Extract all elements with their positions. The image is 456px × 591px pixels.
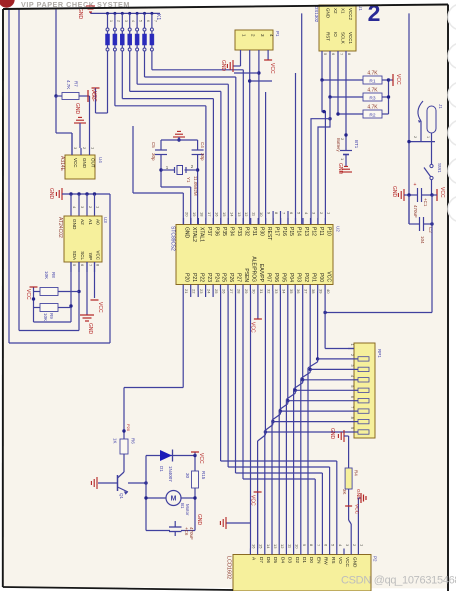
svg-text:X2: X2 [333, 8, 338, 14]
svg-text:+C1: +C1 [423, 198, 428, 207]
svg-text:GND: GND [184, 227, 190, 239]
svg-text:D1: D1 [302, 557, 307, 563]
svg-text:B1: B1 [180, 503, 185, 509]
svg-text:P07: P07 [266, 273, 272, 282]
svg-text:R9: R9 [49, 313, 54, 319]
svg-text:1: 1 [426, 136, 430, 138]
svg-text:D0: D0 [309, 557, 314, 563]
svg-text:30: 30 [185, 473, 190, 479]
svg-text:D5: D5 [273, 557, 278, 563]
svg-text:P2: P2 [373, 556, 378, 562]
svg-text:23: 23 [199, 289, 204, 294]
svg-text:GND: GND [74, 103, 80, 115]
svg-text:11.0592M: 11.0592M [193, 176, 198, 196]
svg-text:1K: 1K [113, 438, 118, 444]
svg-text:40: 40 [326, 289, 331, 294]
svg-text:3: 3 [124, 20, 128, 22]
svg-text:P26: P26 [228, 273, 234, 282]
svg-text:7: 7 [153, 20, 157, 22]
svg-text:13: 13 [237, 212, 242, 217]
svg-text:Y1: Y1 [186, 177, 191, 183]
svg-text:21: 21 [184, 289, 189, 294]
svg-text:R1: R1 [369, 79, 375, 85]
svg-text:U2: U2 [336, 226, 341, 232]
svg-text:16: 16 [214, 212, 219, 217]
svg-text:REST: REST [266, 227, 272, 240]
svg-text:27: 27 [229, 289, 234, 294]
svg-text:12: 12 [244, 212, 249, 217]
svg-text:31: 31 [259, 289, 264, 294]
svg-text:C5: C5 [151, 142, 156, 148]
svg-text:U3: U3 [103, 217, 108, 223]
svg-text:GND: GND [391, 186, 397, 198]
svg-text:P36: P36 [214, 227, 220, 236]
svg-text:3K: 3K [342, 489, 347, 495]
svg-text:R4: R4 [354, 470, 359, 476]
svg-text:Battery: Battery [336, 138, 341, 152]
svg-text:GND: GND [352, 557, 357, 568]
svg-text:C4: C4 [200, 142, 205, 148]
svg-text:X1: X1 [341, 8, 346, 14]
svg-text:SCLK: SCLK [341, 32, 346, 44]
svg-text:PSEN: PSEN [243, 268, 249, 282]
svg-text:12: 12 [280, 544, 285, 549]
svg-text:4.7K: 4.7K [367, 71, 378, 77]
svg-text:104: 104 [420, 236, 425, 244]
svg-text:10: 10 [295, 544, 300, 549]
svg-text:19: 19 [192, 212, 197, 217]
svg-text:P20: P20 [126, 424, 131, 432]
svg-text:BT1: BT1 [354, 140, 359, 149]
svg-text:SDA: SDA [72, 251, 77, 260]
svg-text:15: 15 [222, 212, 227, 217]
svg-text:VCC: VCC [354, 504, 360, 515]
svg-text:24: 24 [207, 289, 212, 294]
svg-text:R3: R3 [369, 96, 375, 102]
svg-text:EN: EN [316, 557, 321, 564]
svg-text:P32: P32 [243, 227, 249, 236]
svg-text:10K: 10K [43, 313, 48, 321]
svg-text:10: 10 [259, 212, 264, 217]
svg-text:M: M [171, 496, 177, 503]
svg-text:P16: P16 [281, 227, 287, 236]
svg-text:R15: R15 [201, 471, 206, 480]
svg-text:18: 18 [199, 212, 204, 217]
svg-text:XTAL1: XTAL1 [199, 227, 205, 242]
svg-text:VCC: VCC [395, 74, 401, 85]
svg-text:14: 14 [266, 544, 271, 549]
svg-text:EA/VPP: EA/VPP [258, 264, 264, 283]
svg-text:VCC: VCC [73, 158, 78, 168]
svg-text:2: 2 [413, 136, 417, 138]
svg-text:R2: R2 [369, 113, 375, 119]
svg-text:30: 30 [251, 289, 256, 294]
svg-text:AT24C02: AT24C02 [57, 217, 63, 238]
svg-text:4.7K: 4.7K [367, 88, 378, 94]
svg-text:P24: P24 [213, 273, 219, 282]
svg-text:20: 20 [185, 212, 190, 217]
svg-text:P02: P02 [303, 273, 309, 282]
svg-text:P14: P14 [296, 227, 302, 236]
svg-text:A1: A1 [88, 219, 93, 225]
svg-text:1: 1 [109, 20, 113, 22]
svg-text:28: 28 [237, 289, 242, 294]
svg-text:VCC: VCC [198, 453, 204, 464]
svg-text:GND: GND [326, 8, 331, 19]
svg-text:GND: GND [196, 514, 202, 526]
svg-text:VCC: VCC [325, 271, 331, 282]
svg-text:GND: GND [77, 8, 83, 20]
svg-text:D4: D4 [280, 557, 285, 563]
svg-text:P13: P13 [303, 227, 309, 236]
svg-text:RST: RST [326, 32, 331, 41]
svg-text:25: 25 [214, 289, 219, 294]
svg-text:RS: RS [331, 557, 336, 564]
svg-text:J1: J1 [438, 104, 443, 109]
svg-text:P04: P04 [288, 273, 294, 282]
svg-text:P34: P34 [229, 227, 235, 236]
svg-text:4: 4 [131, 20, 135, 22]
svg-text:P35: P35 [221, 227, 227, 236]
svg-text:16: 16 [251, 544, 256, 549]
svg-text:+C6: +C6 [184, 527, 189, 536]
svg-text:VCC2: VCC2 [348, 8, 353, 21]
svg-text:P21: P21 [191, 273, 197, 282]
svg-text:30p: 30p [151, 153, 156, 161]
svg-text:13: 13 [273, 544, 278, 549]
svg-text:GND: GND [329, 428, 335, 440]
svg-text:VCC1: VCC1 [348, 32, 353, 45]
svg-text:GND: GND [337, 163, 343, 175]
svg-text:P20: P20 [183, 273, 189, 282]
svg-text:D1: D1 [159, 466, 164, 472]
svg-text:P15: P15 [288, 227, 294, 236]
svg-text:15: 15 [259, 544, 264, 549]
svg-text:P25: P25 [221, 273, 227, 282]
svg-text:+: + [414, 182, 417, 188]
svg-text:P37: P37 [206, 227, 212, 236]
svg-text:LCD1602: LCD1602 [226, 556, 232, 579]
svg-text:P23: P23 [206, 273, 212, 282]
svg-text:35: 35 [289, 289, 294, 294]
svg-text:VCC: VCC [96, 250, 101, 260]
svg-text:470uF: 470uF [413, 205, 418, 218]
svg-text:GND: GND [82, 158, 87, 169]
svg-text:CSDN @qq_1076315468: CSDN @qq_1076315468 [341, 575, 456, 587]
svg-text:R8: R8 [51, 272, 56, 278]
svg-text:VCC: VCC [97, 302, 103, 313]
svg-text:14: 14 [229, 212, 234, 217]
svg-text:K1: K1 [155, 14, 161, 20]
svg-text:GND: GND [72, 219, 77, 230]
svg-text:4.7K: 4.7K [367, 105, 378, 111]
svg-text:36: 36 [296, 289, 301, 294]
svg-text:P12: P12 [311, 227, 317, 236]
svg-text:P22: P22 [198, 273, 204, 282]
svg-text:22: 22 [192, 289, 197, 294]
svg-text:32: 32 [266, 289, 271, 294]
svg-text:VCC: VCC [25, 289, 31, 300]
svg-text:P00: P00 [318, 273, 324, 282]
svg-text:38: 38 [311, 289, 316, 294]
svg-text:GND: GND [48, 188, 54, 200]
svg-text:VO: VO [338, 557, 343, 564]
svg-text:VCC: VCC [90, 89, 96, 100]
svg-text:A0: A0 [96, 219, 101, 225]
svg-text:P06: P06 [273, 273, 279, 282]
svg-text:P01: P01 [310, 273, 316, 282]
svg-text:RW: RW [324, 557, 329, 565]
svg-text:D6: D6 [266, 557, 271, 563]
svg-text:17: 17 [207, 212, 212, 217]
svg-text:A314E: A314E [59, 156, 65, 172]
svg-text:P27: P27 [236, 273, 242, 282]
svg-text:P17: P17 [273, 227, 279, 236]
svg-text:26: 26 [222, 289, 227, 294]
svg-text:2: 2 [116, 20, 120, 22]
svg-text:A2: A2 [80, 219, 85, 225]
svg-text:Motor: Motor [185, 504, 190, 516]
svg-text:VCC: VCC [345, 557, 350, 568]
svg-text:470uF: 470uF [189, 527, 194, 540]
svg-text:4.7K: 4.7K [66, 80, 71, 89]
svg-text:1N4007: 1N4007 [168, 466, 173, 482]
svg-text:GND: GND [87, 323, 93, 335]
svg-text:STC89C52: STC89C52 [170, 226, 176, 251]
svg-text:RP1: RP1 [377, 349, 382, 358]
svg-text:34: 34 [281, 289, 286, 294]
svg-text:SW1: SW1 [437, 163, 442, 173]
svg-text:ALE/PROG: ALE/PROG [251, 256, 257, 282]
svg-text:P31: P31 [251, 227, 257, 236]
svg-text:D3: D3 [288, 557, 293, 563]
svg-text:VCC: VCC [269, 63, 275, 74]
svg-text:29: 29 [244, 289, 249, 294]
svg-text:P33: P33 [236, 227, 242, 236]
svg-text:VCC: VCC [250, 495, 256, 506]
svg-text:P1: P1 [275, 31, 280, 37]
svg-text:P05: P05 [281, 273, 287, 282]
svg-text:Q1: Q1 [119, 493, 124, 500]
svg-text:P10: P10 [326, 227, 332, 236]
svg-text:2: 2 [368, 0, 381, 26]
svg-text:SCL: SCL [80, 251, 85, 260]
svg-text:37: 37 [304, 289, 309, 294]
svg-text:5: 5 [139, 20, 143, 22]
svg-text:VCC: VCC [439, 187, 445, 198]
svg-text:U4: U4 [98, 157, 103, 163]
svg-text:WP: WP [88, 253, 93, 260]
svg-text:IO: IO [333, 32, 338, 37]
svg-text:GND: GND [220, 60, 226, 72]
svg-text:D7: D7 [259, 557, 264, 563]
svg-text:33: 33 [274, 289, 279, 294]
svg-text:P30: P30 [258, 227, 264, 236]
svg-text:6: 6 [146, 20, 150, 22]
svg-text:GND: GND [355, 489, 361, 500]
svg-text:P11: P11 [318, 227, 324, 236]
svg-text:30p: 30p [200, 153, 205, 161]
svg-text:P03: P03 [295, 273, 301, 282]
svg-text:OUT: OUT [91, 158, 96, 168]
svg-text:R6: R6 [131, 438, 136, 444]
svg-text:39: 39 [319, 289, 324, 294]
svg-text:XTAL2: XTAL2 [191, 227, 197, 242]
svg-text:D2: D2 [295, 557, 300, 563]
svg-text:10K: 10K [44, 271, 49, 279]
svg-text:R7: R7 [74, 81, 79, 87]
svg-text:DS1302: DS1302 [314, 6, 319, 23]
